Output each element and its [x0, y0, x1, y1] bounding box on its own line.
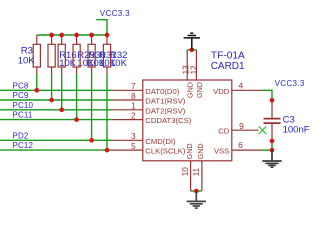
resistor R32 [103, 35, 110, 74]
ground (earth, above chip) [184, 33, 200, 50]
resistor R30 [73, 35, 80, 74]
no-connect X on pin 9 [259, 126, 267, 134]
junction dot C3 bottom [270, 139, 275, 144]
pin 3 stub [113, 139, 143, 141]
pin 2 stub [113, 119, 143, 121]
pin 9 stub (CD) [232, 129, 259, 131]
wire top pull-up bus [37, 34, 107, 36]
pin 7 stub [113, 89, 143, 91]
power port VCC3.3 (top left, bar symbol) [96, 20, 107, 35]
svg-text:PC11: PC11 [13, 111, 33, 120]
svg-text:9: 9 [239, 121, 244, 131]
svg-text:4: 4 [239, 80, 244, 90]
svg-text:DAT2(RSV): DAT2(RSV) [145, 106, 185, 115]
svg-text:CMD(DI): CMD(DI) [145, 137, 176, 146]
resistor R3 [33, 35, 40, 74]
pin 12 (top GND) [195, 50, 197, 80]
pin 13 (top GND) [186, 50, 188, 80]
svg-text:PC12: PC12 [13, 141, 34, 150]
svg-text:GND: GND [186, 82, 195, 98]
svg-text:CLK(SCLK): CLK(SCLK) [145, 147, 186, 156]
resistor R31 [88, 35, 95, 74]
svg-text:10K: 10K [110, 58, 128, 69]
svg-text:6: 6 [238, 140, 243, 150]
wire R3 to PC8 [36, 74, 38, 90]
pin 5 stub [113, 149, 143, 151]
wire R29 to PC10 [61, 74, 63, 110]
wire R16 to PC9 [51, 74, 53, 100]
wire PC10 [0, 109, 113, 111]
svg-text:PC9: PC9 [13, 91, 29, 100]
svg-text:VSS: VSS [214, 147, 229, 156]
svg-text:12: 12 [190, 65, 199, 75]
svg-text:GND: GND [195, 82, 204, 98]
svg-text:10: 10 [181, 167, 190, 177]
svg-text:11: 11 [192, 167, 201, 176]
svg-text:1: 1 [131, 101, 136, 111]
pin 1 stub [113, 109, 143, 111]
wire R30 to PC11 [76, 74, 78, 120]
svg-text:TF-01A: TF-01A [211, 50, 245, 61]
junction dot VDD/C3 [270, 98, 275, 103]
pin 11 (bottom GND) [201, 161, 203, 191]
svg-text:8: 8 [131, 91, 136, 101]
pin 8 stub [113, 99, 143, 101]
wire PC12 [0, 149, 113, 151]
svg-text:VDD: VDD [213, 87, 230, 96]
svg-text:DAT1(RSV): DAT1(RSV) [145, 97, 185, 106]
svg-text:2: 2 [131, 110, 136, 120]
svg-text:CARD1: CARD1 [211, 61, 245, 72]
wire joining pins 13,12 [187, 49, 196, 51]
pin 10 (bottom GND) [190, 161, 192, 191]
wire VDD to C3 [262, 90, 272, 100]
wire joining pins 10,11 [191, 190, 202, 192]
svg-text:5: 5 [131, 141, 136, 151]
svg-text:PC10: PC10 [13, 101, 34, 110]
junction dot VSS [270, 148, 275, 153]
svg-text:100nF: 100nF [283, 124, 310, 135]
junction dot top [189, 47, 194, 52]
wire PC11 [0, 119, 113, 121]
svg-text:CD: CD [218, 127, 230, 136]
svg-text:10K: 10K [18, 55, 36, 66]
resistor R29 [58, 35, 65, 74]
wire PC9 [0, 99, 113, 101]
wire PD2 [0, 139, 113, 141]
svg-text:7: 7 [131, 81, 136, 91]
svg-text:CDDAT3(CS): CDDAT3(CS) [145, 116, 191, 125]
ground (earth, below chip) [187, 191, 206, 208]
wire PC8 [0, 89, 113, 91]
junction dot bottom [194, 189, 199, 194]
resistor R16 [48, 35, 55, 74]
connector CARD1 body [143, 80, 232, 161]
svg-text:PD2: PD2 [13, 131, 29, 140]
wire C3 to VSS node [271, 141, 273, 150]
svg-text:GND: GND [196, 143, 205, 159]
svg-text:3: 3 [131, 131, 136, 141]
svg-text:GND: GND [185, 143, 194, 159]
svg-text:PC8: PC8 [13, 81, 29, 90]
capacitor C3 [264, 100, 281, 141]
svg-text:DAT0(D0): DAT0(D0) [145, 87, 179, 96]
svg-text:VCC3.3: VCC3.3 [100, 9, 130, 18]
wire VSS to node [262, 149, 273, 151]
svg-text:VCC3.3: VCC3.3 [275, 79, 305, 88]
ground (earth, bottom right) [262, 150, 281, 167]
junction dots on net wires [34, 88, 109, 152]
junction dots on bus [49, 33, 109, 38]
pin 6 stub (VSS) [232, 149, 262, 151]
wire R32 to PC12 [106, 74, 108, 150]
wire R31 to PD2 [91, 74, 93, 140]
pin 4 stub (VDD) [232, 89, 262, 91]
